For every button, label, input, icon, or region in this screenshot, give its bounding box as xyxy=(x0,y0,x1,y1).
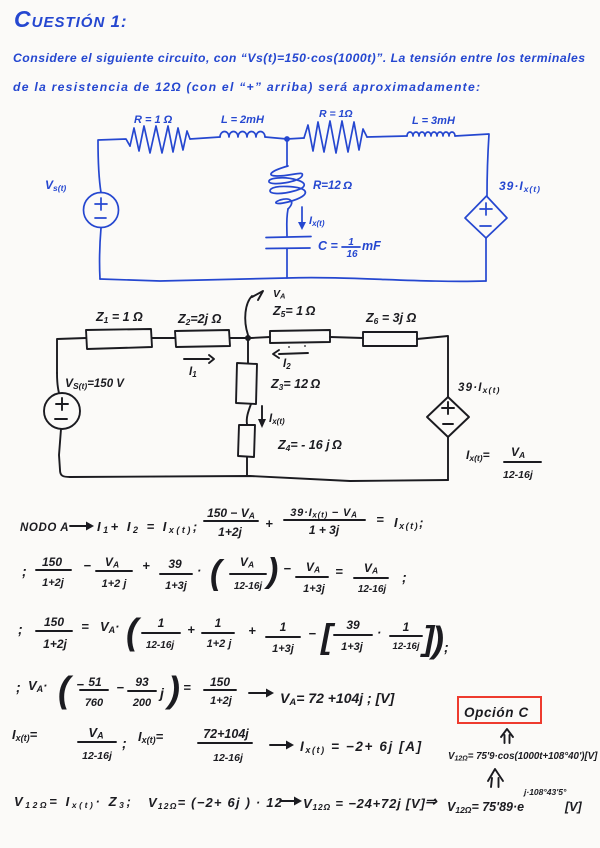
svg-text:150: 150 xyxy=(210,675,230,689)
svg-text:Z5= 1 Ω: Z5= 1 Ω xyxy=(272,304,316,319)
wire xyxy=(230,337,245,339)
label C = 1/16 mF xyxy=(318,237,381,260)
label L=3mH xyxy=(412,115,456,127)
voltage source Vs=150V xyxy=(44,393,80,429)
svg-text:760: 760 xyxy=(85,697,104,709)
current arrow Ix(t) xyxy=(258,406,266,428)
wire xyxy=(330,337,363,338)
svg-text:1+3j: 1+3j xyxy=(303,583,326,595)
svg-text:1+2 j: 1+2 j xyxy=(207,638,233,650)
svg-text:L = 3mH: L = 3mH xyxy=(412,115,456,127)
svg-text:VA= 72 +104j ; [V]: VA= 72 +104j ; [V] xyxy=(280,690,396,708)
label Z2=2jΩ xyxy=(177,312,222,327)
svg-text:R = 1Ω: R = 1Ω xyxy=(319,108,353,120)
svg-text:Z3= 12 Ω: Z3= 12 Ω xyxy=(270,377,321,392)
svg-text:93: 93 xyxy=(135,675,149,689)
node (junction dot) xyxy=(284,136,290,142)
svg-text:+: + xyxy=(187,622,195,637)
svg-text:−: − xyxy=(308,626,316,641)
wire from source to bottom xyxy=(485,238,487,281)
resistor R2 xyxy=(304,121,367,153)
wire source to bottom-right xyxy=(447,437,449,480)
label Z3 = 12Ω xyxy=(270,377,321,392)
svg-text:Z2=2j Ω: Z2=2j Ω xyxy=(177,312,222,327)
label VA xyxy=(273,288,285,301)
label Z1 = 1Ω xyxy=(95,310,143,325)
svg-text:1 + 3j: 1 + 3j xyxy=(309,523,340,537)
svg-text:16: 16 xyxy=(346,249,358,260)
wire source to bottom-left corner xyxy=(59,429,70,477)
svg-text:+: + xyxy=(248,623,256,638)
label I2 xyxy=(283,358,291,371)
svg-text:1+2j: 1+2j xyxy=(42,577,65,589)
voltage source Vs(t) xyxy=(84,193,119,228)
dependent source 39·Ix(t) (diamond) xyxy=(465,196,507,238)
wire left vertical + top-left xyxy=(98,139,130,193)
svg-text:1: 1 xyxy=(403,620,410,634)
current arrow I1 xyxy=(184,355,214,363)
wire Z3 to Z4 xyxy=(247,404,251,424)
svg-text:−: − xyxy=(83,558,91,573)
equation line 3: grouped admittances xyxy=(18,611,449,660)
svg-text:12-16j: 12-16j xyxy=(503,469,534,481)
svg-text:NODO A: NODO A xyxy=(20,522,69,534)
label Vs(t)=150 V xyxy=(65,376,125,391)
label Ix(t) xyxy=(269,413,285,426)
svg-text:;: ; xyxy=(402,569,407,585)
wire node down to Z3 xyxy=(247,341,249,363)
svg-text:=: = xyxy=(335,564,343,579)
wire top-right corner down xyxy=(417,336,448,397)
svg-text:C =: C = xyxy=(318,239,339,253)
inductor L=3mH xyxy=(407,132,455,136)
svg-text:=: = xyxy=(376,512,384,527)
svg-text:): ) xyxy=(264,552,278,590)
label L=2mH xyxy=(221,114,265,126)
impedance Z4 xyxy=(238,425,255,457)
svg-text:·: · xyxy=(197,563,201,578)
dependent source 39·Ix(t) (diamond) xyxy=(427,397,469,437)
svg-text:12-16j: 12-16j xyxy=(82,750,113,762)
wire left vertical to source xyxy=(57,373,59,393)
svg-text:1+3j: 1+3j xyxy=(272,643,295,655)
answer box Opción C xyxy=(458,697,541,723)
svg-text:de la resistencia de 12Ω: de la resistencia de 12Ω (con el “+” arr… xyxy=(13,80,481,94)
svg-text:V12Ω= 75'9·cos(1000t+108°40')[: V12Ω= 75'9·cos(1000t+108°40')[V] xyxy=(448,751,598,763)
equation line 5: Ix(t) xyxy=(12,725,423,764)
wire bottom xyxy=(100,278,486,282)
svg-text:Opción C: Opción C xyxy=(464,705,529,720)
svg-text:R=12 Ω: R=12 Ω xyxy=(313,180,352,192)
label R=12Ω xyxy=(313,180,352,192)
wire xyxy=(152,337,175,339)
problem statement line 2 xyxy=(13,80,481,94)
svg-text:12-16j: 12-16j xyxy=(358,584,387,595)
svg-text:;: ; xyxy=(22,563,27,579)
wire top-right corner down to source xyxy=(455,134,489,196)
equation line 2: expanded KCL xyxy=(22,552,407,595)
label Ix(t) xyxy=(309,215,325,228)
impedance Z3 xyxy=(236,363,257,404)
svg-text:150 − VA: 150 − VA xyxy=(207,506,255,521)
equation line 6: V12Ω phasor xyxy=(14,787,583,815)
svg-text:39: 39 xyxy=(346,618,360,632)
label Vs(t) xyxy=(45,178,66,193)
svg-text:;: ; xyxy=(444,639,449,655)
svg-text:12-16j: 12-16j xyxy=(393,641,420,652)
wire bottom-left up to source xyxy=(100,228,101,279)
svg-text:Z1 = 1 Ω: Z1 = 1 Ω xyxy=(95,310,143,325)
svg-text:1+2j: 1+2j xyxy=(218,525,242,539)
impedance Z2 xyxy=(175,330,230,347)
current arrow I2 xyxy=(273,345,308,358)
svg-text:51: 51 xyxy=(88,675,102,689)
svg-text:1+2j: 1+2j xyxy=(43,637,67,651)
equation line 4: solve VA xyxy=(16,669,396,710)
wire xyxy=(190,137,220,139)
svg-text:−: − xyxy=(116,680,124,695)
svg-text:[V]: [V] xyxy=(564,800,583,814)
svg-text:R = 1 Ω: R = 1 Ω xyxy=(134,114,173,126)
label I1 xyxy=(189,366,197,379)
svg-text:=: = xyxy=(183,680,191,695)
svg-text:12-16j: 12-16j xyxy=(213,752,244,764)
svg-text:12-16j: 12-16j xyxy=(234,581,263,592)
wire xyxy=(251,337,270,338)
double up-arrow 1 xyxy=(501,729,513,743)
svg-text:−: − xyxy=(283,561,291,576)
svg-text:12-16j: 12-16j xyxy=(146,640,175,651)
svg-text:72+104j: 72+104j xyxy=(203,727,249,741)
capacitor C xyxy=(266,237,311,249)
svg-text:mF: mF xyxy=(362,239,381,253)
svg-text:L = 2mH: L = 2mH xyxy=(221,114,265,126)
wire capacitor to bottom xyxy=(286,249,288,278)
svg-text:+: + xyxy=(142,558,150,573)
svg-text:39: 39 xyxy=(168,557,182,571)
svg-text:1: 1 xyxy=(280,620,287,634)
label Z5= 1Ω xyxy=(272,304,316,319)
wire xyxy=(367,136,407,137)
wire node to middle branch xyxy=(286,141,288,166)
label 39·Ix(t) xyxy=(458,382,501,395)
label Z4= -16jΩ xyxy=(277,438,342,453)
svg-text:1: 1 xyxy=(158,616,165,630)
title Cuestión 1 xyxy=(14,6,128,32)
label Z6 = 3jΩ xyxy=(365,311,417,326)
svg-text:150: 150 xyxy=(42,555,62,569)
svg-text:1+2j: 1+2j xyxy=(210,695,233,707)
svg-text:;: ; xyxy=(16,679,21,695)
svg-text:200: 200 xyxy=(132,697,152,709)
inductor L=2mH xyxy=(220,132,265,138)
svg-text:Considere el siguiente circu: Considere el siguiente circuito, con “Vs… xyxy=(13,51,586,65)
svg-text:j·108°43'5°: j·108°43'5° xyxy=(523,787,567,797)
current arrow Ix(t) xyxy=(298,207,306,230)
equation line 1: KCL at node A xyxy=(20,506,425,539)
node voltage VA arrow xyxy=(245,291,263,335)
svg-text:⇒: ⇒ xyxy=(425,793,438,809)
resistor R1 xyxy=(130,126,190,153)
label R=1Ω xyxy=(319,108,353,120)
double up-arrow 2 xyxy=(488,769,503,787)
wire coil to capacitor xyxy=(287,209,288,236)
final result V12Ω time domain xyxy=(448,751,598,763)
resistor R=12Ω (vertical coil) xyxy=(269,166,306,209)
impedance Z6 xyxy=(363,332,417,346)
node A (junction dot) xyxy=(245,335,251,341)
wire xyxy=(287,138,304,139)
svg-text:150: 150 xyxy=(44,615,64,629)
problem statement line 1 xyxy=(13,51,586,65)
svg-text:;: ; xyxy=(122,735,127,751)
svg-text:Z6 = 3j Ω: Z6 = 3j Ω xyxy=(365,311,417,326)
label Ix(t)=VA/(12-16j) xyxy=(466,445,541,481)
svg-text:1+3j: 1+3j xyxy=(341,641,364,653)
svg-text:;: ; xyxy=(18,621,23,637)
svg-text:=: = xyxy=(81,619,89,634)
svg-text:+: + xyxy=(265,516,273,531)
impedance Z5 xyxy=(270,330,330,343)
wire top-left corner xyxy=(57,338,86,373)
svg-text:·: · xyxy=(377,625,381,640)
svg-text:1: 1 xyxy=(215,616,222,630)
wire Z4 to bottom xyxy=(246,457,248,476)
label R=1Ω xyxy=(134,114,173,126)
impedance Z1 xyxy=(86,329,152,349)
svg-text:1+3j: 1+3j xyxy=(165,580,188,592)
wire bottom xyxy=(70,476,448,481)
svg-text:1+2 j: 1+2 j xyxy=(102,578,128,590)
wire xyxy=(265,137,287,139)
label 39·Ix(t) xyxy=(499,179,541,194)
